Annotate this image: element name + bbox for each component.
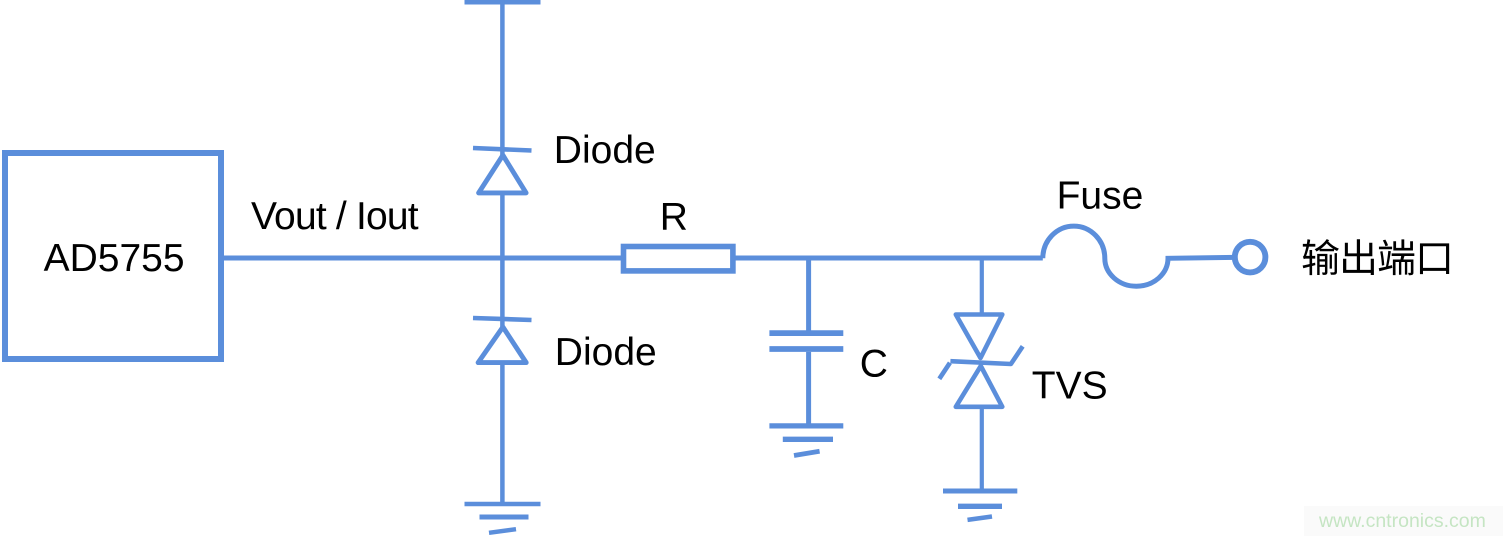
svg-text:TVS: TVS xyxy=(1032,365,1108,408)
svg-text:Vout / Iout: Vout / Iout xyxy=(251,195,419,238)
svg-text:AD5755: AD5755 xyxy=(44,237,185,280)
svg-text:www.cntronics.com: www.cntronics.com xyxy=(1318,510,1486,532)
svg-text:Diode: Diode xyxy=(554,129,656,172)
svg-text:R: R xyxy=(660,195,688,238)
svg-text:Fuse: Fuse xyxy=(1057,174,1144,217)
svg-text:C: C xyxy=(860,342,888,385)
svg-text:Diode: Diode xyxy=(555,331,657,374)
